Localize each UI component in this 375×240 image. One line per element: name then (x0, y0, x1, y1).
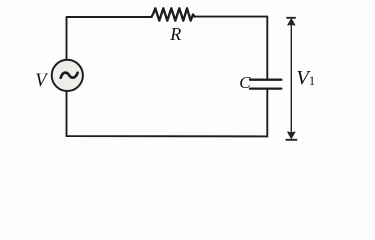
capacitor C top plate (250, 79, 281, 81)
V1 arrow bottom tick (286, 139, 298, 141)
resistor R (152, 8, 195, 20)
V1 arrow top tick (286, 17, 296, 19)
svg-text:C: C (239, 73, 251, 92)
V1 arrow line (290, 19, 292, 138)
V1 arrow bottom head (288, 132, 295, 138)
svg-text:1: 1 (309, 74, 315, 88)
capacitor C bottom plate (250, 87, 281, 89)
wire bottom-left segment (67, 91, 268, 137)
wire bottom-right segment (266, 90, 268, 137)
voltage source V (circle) (52, 60, 83, 91)
svg-text:R: R (169, 24, 181, 44)
V1 arrow top head (288, 19, 295, 25)
wire top-right segment (195, 17, 268, 79)
voltage source sine symbol (61, 73, 78, 78)
wire top-left segment (67, 17, 152, 60)
V1 dimension arrow (286, 18, 298, 140)
